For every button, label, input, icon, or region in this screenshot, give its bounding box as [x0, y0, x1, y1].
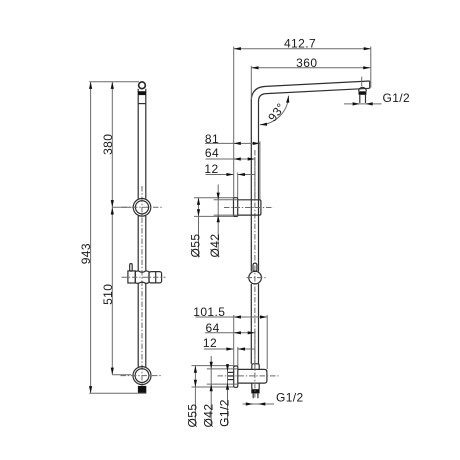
ext line collar right (bottom): [237, 347, 239, 366]
slider knob side: [253, 263, 257, 271]
bottom elbow circle inner: [135, 369, 149, 383]
svg-text:G1/2: G1/2: [383, 91, 411, 105]
svg-text:360: 360: [296, 56, 317, 70]
bottom outlet black block: [138, 386, 146, 393]
upper bracket crosshair: [122, 206, 163, 208]
svg-text:12: 12: [203, 336, 217, 350]
rail top cap ball: [139, 82, 146, 89]
svg-text:64: 64: [205, 146, 219, 160]
svg-text:64: 64: [206, 321, 220, 335]
dim 412.7 line: [234, 48, 371, 50]
mid bracket ext lines collar: [194, 197, 234, 199]
arm connector black nut: [359, 91, 367, 95]
svg-text:943: 943: [79, 243, 93, 264]
svg-text:81: 81: [205, 132, 219, 146]
ext line wall face tall: [233, 47, 235, 198]
ext line riser outer for 360: [250, 66, 252, 100]
dim 101.5: [196, 316, 268, 318]
upper wall bracket circle inner: [135, 201, 148, 214]
slider middle spool: [135, 271, 149, 283]
ext line body dome right: [266, 315, 268, 369]
bottom elbow circle outer: [133, 367, 151, 385]
bottom bracket collar ext lines: [192, 365, 234, 367]
G1/2 bottom leader: [243, 403, 275, 405]
dim 12 (mid): [206, 174, 234, 176]
svg-text:Ø42: Ø42: [201, 404, 215, 428]
mid bracket centerline: [224, 207, 274, 209]
slider handset holder: [149, 272, 162, 283]
ext line riser center (bottom): [254, 331, 256, 369]
upper wall bracket circle outer: [133, 199, 151, 217]
dim 943 line: [90, 82, 92, 394]
ext line elbow center: [112, 374, 131, 376]
rail centerline vertical: [141, 186, 143, 392]
ext line collar right face (mid): [237, 173, 239, 198]
mid bracket collar: [234, 198, 238, 217]
dim 64 (mid): [206, 158, 255, 160]
svg-text:G1/2: G1/2: [218, 399, 232, 427]
bottom bracket collar: [234, 366, 238, 387]
93 degree arc: [260, 96, 289, 125]
ext line riser right for 81: [259, 141, 261, 199]
bottom bracket riser socket: [252, 364, 259, 370]
dim 380 line: [111, 82, 113, 208]
wall thread marks: [227, 372, 233, 379]
dim 81: [205, 142, 260, 144]
slider centerline: [122, 276, 166, 278]
svg-text:Ø42: Ø42: [208, 234, 222, 258]
svg-text:12: 12: [204, 162, 218, 176]
dim 12 (bottom): [204, 348, 234, 350]
rail tube segments: [138, 89, 146, 367]
dim 510 line: [111, 207, 113, 374]
svg-text:Ø55: Ø55: [189, 234, 203, 258]
shower arm inner edge: [259, 88, 370, 101]
svg-text:412.7: 412.7: [284, 36, 316, 50]
arm connector stem: [359, 95, 361, 103]
dim 64 (bottom): [205, 332, 255, 334]
G1/2 top leader: [344, 103, 382, 105]
bottom bracket body: [238, 369, 267, 383]
bottom elbow crosshair: [121, 375, 162, 377]
mid bracket body: [238, 200, 261, 215]
bottom stem centerline: [254, 362, 256, 398]
svg-text:510: 510: [101, 284, 115, 305]
dim 380 arrows: [111, 82, 114, 89]
arm end connector centerline tick: [361, 77, 363, 87]
dia 42 dim (mid): [217, 185, 219, 258]
svg-text:Ø55: Ø55: [185, 404, 199, 428]
bottom bracket centerline: [218, 375, 279, 377]
ext line top (rail top): [89, 81, 139, 83]
mid bracket ext lines body: [214, 199, 238, 201]
dim 510 arrows: [111, 207, 114, 214]
shower arm outer edge: [251, 81, 369, 101]
ext line riser center (mid): [254, 157, 256, 200]
slider lock block: [128, 271, 135, 283]
dia 55 dim (bottom): [194, 366, 196, 426]
svg-text:101.5: 101.5: [193, 305, 225, 319]
bottom outlet black band: [251, 390, 259, 394]
svg-text:G1/2: G1/2: [276, 391, 304, 405]
dim 943 arrows: [89, 82, 92, 89]
dia 42 dim (bottom): [210, 356, 212, 426]
slider lever: [130, 264, 133, 272]
ext line arm end: [370, 47, 372, 88]
bottom bracket body ext lines: [207, 368, 238, 370]
ext line mid (upper bracket center): [112, 206, 131, 208]
arm end edge: [369, 81, 371, 88]
bottom outlet stem: [252, 393, 254, 398]
riser centerline: [254, 150, 256, 362]
arm connector dome: [359, 87, 367, 91]
G1/2 wall thread dim: [227, 364, 229, 426]
rail joint line: [138, 103, 146, 105]
ext line wall face (bottom): [233, 315, 235, 366]
ext line bottom (outlet bottom): [89, 392, 146, 394]
svg-text:380: 380: [101, 134, 115, 155]
dia 55 dim (mid): [198, 198, 200, 258]
riser tube: [251, 100, 258, 364]
cap black band: [138, 91, 146, 95]
slider circle side: [249, 271, 262, 284]
slider side centerline: [247, 277, 267, 279]
dim 360 line: [251, 67, 370, 69]
bottom bracket outlet nut: [252, 383, 259, 390]
